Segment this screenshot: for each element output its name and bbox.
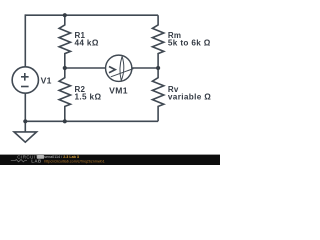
svg-text:httpc//circuitlab.com/c/fmq2bz: httpc//circuitlab.com/c/fmq2bznmwb1 — [44, 159, 104, 163]
ground — [14, 132, 37, 142]
voltmeter VM1 — [106, 55, 134, 81]
junction node B (R1/R2/VM1) — [63, 66, 67, 70]
CircuitLab logo badge — [37, 155, 44, 159]
resistor Rm — [152, 15, 163, 68]
resistor R1 — [59, 15, 70, 68]
wire top rail — [25, 14, 158, 16]
wire bottom rail — [25, 120, 158, 122]
watermark bar — [0, 155, 220, 165]
wire left rail — [24, 14, 26, 66]
svg-text:variable Ω: variable Ω — [168, 92, 211, 101]
junction node C (Rm/Rv/VM1) — [156, 66, 160, 70]
CircuitLab logo wire glyph — [11, 160, 27, 162]
wire V1 to ground — [24, 93, 26, 132]
wire middle right (VM1 to node C) — [132, 67, 158, 69]
junction node E (V1/ground/bottom rail) — [23, 119, 27, 123]
resistor R2 — [59, 68, 70, 121]
svg-text:1.5 kΩ: 1.5 kΩ — [75, 92, 102, 101]
svg-text:5k to 6k Ω: 5k to 6k Ω — [168, 39, 211, 48]
junction node A (top, R1) — [63, 13, 67, 17]
junction node D (R2/bottom rail) — [63, 119, 67, 123]
svg-text:V1: V1 — [41, 75, 52, 85]
wire middle left (node B to VM1) — [65, 67, 106, 69]
svg-text:VM1: VM1 — [109, 85, 128, 95]
voltage source V1 — [12, 67, 38, 93]
resistor Rv — [152, 68, 163, 121]
svg-text:44 kΩ: 44 kΩ — [75, 39, 99, 48]
svg-text:LAB: LAB — [31, 159, 41, 164]
